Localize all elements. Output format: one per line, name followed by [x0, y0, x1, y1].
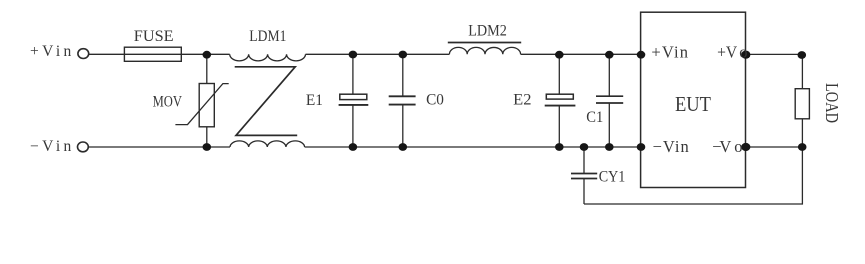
svg-text:FUSE: FUSE [134, 28, 174, 45]
svg-text:+V: +V [717, 42, 737, 61]
inductor LDM1 top winding [230, 54, 306, 61]
svg-text:o: o [739, 42, 747, 61]
wire bottom rail: LDM1 to EUT [305, 146, 641, 148]
capacitor E1 top plate [340, 94, 367, 99]
capacitor C0 wires [402, 54, 404, 96]
junction EUT -Vo pin [741, 143, 750, 151]
junction E2 bottom [555, 143, 564, 151]
node +Vin terminal [78, 49, 89, 59]
capacitor E1 wires [352, 54, 354, 94]
svg-text:MOV: MOV [153, 94, 183, 111]
svg-text:−V: −V [712, 137, 731, 156]
svg-text:LDM2: LDM2 [468, 22, 507, 39]
resistor LOAD body [795, 89, 809, 119]
junction C0 bottom [399, 143, 408, 151]
svg-text:E1: E1 [306, 92, 323, 109]
svg-text:−Vin: −Vin [653, 137, 689, 156]
svg-text:−Vin: −Vin [30, 138, 72, 155]
svg-text:CY1: CY1 [599, 168, 626, 185]
EUT box [641, 12, 746, 187]
svg-text:+Vin: +Vin [30, 43, 72, 60]
svg-text:EUT: EUT [675, 92, 711, 116]
svg-text:C0: C0 [426, 92, 444, 109]
svg-text:+Vin: +Vin [651, 42, 688, 61]
varistor MOV body [199, 84, 214, 127]
junction LOAD top [798, 51, 807, 59]
junction EUT +Vin pin [637, 51, 646, 59]
svg-text:C1: C1 [586, 109, 603, 126]
capacitor C0 plates [389, 95, 416, 97]
capacitor CY1 wires [583, 147, 585, 174]
capacitor C1 wires [608, 54, 610, 96]
junction C1 top [605, 51, 614, 59]
wire +Vo to LOAD [746, 53, 803, 55]
varistor MOV diagonal [175, 84, 228, 125]
inductor LDM2 winding [449, 47, 520, 54]
junction CY1 [580, 143, 589, 151]
LDM1 core Z symbol [235, 67, 298, 136]
junction LOAD bottom [798, 143, 807, 151]
junction E1 top [349, 51, 358, 59]
wire CY1 return bottom [584, 147, 802, 204]
svg-text:o: o [734, 137, 742, 156]
capacitor E2 bottom plate [545, 105, 576, 107]
junction EUT -Vin pin [637, 143, 646, 151]
junction C1 bottom [605, 143, 614, 151]
junction MOV top [203, 51, 212, 59]
wire -Vo to LOAD [746, 146, 803, 148]
svg-text:LOAD: LOAD [822, 83, 842, 123]
fuse FUSE body [124, 47, 181, 61]
resistor LOAD wires [801, 54, 803, 88]
junction MOV bottom [203, 143, 212, 151]
junction EUT +Vo pin [741, 51, 750, 59]
svg-text:LDM1: LDM1 [249, 28, 286, 45]
capacitor E1 bottom plate [339, 104, 369, 106]
wire top rail: terminal to MOV junction [89, 53, 207, 55]
capacitor C1 plates [596, 95, 623, 97]
capacitor E2 wires [558, 54, 560, 94]
junction E2 top [555, 51, 564, 59]
varistor MOV vertical wires [206, 54, 208, 83]
junction E1 bottom [349, 143, 358, 151]
capacitor E2 top plate [546, 94, 573, 99]
wire top rail: LDM2 to EUT [521, 53, 641, 55]
junction C0 top [399, 51, 408, 59]
svg-text:E2: E2 [513, 92, 531, 109]
inductor LDM1 bottom winding [230, 141, 305, 147]
capacitor CY1 plates [571, 173, 597, 175]
node -Vin terminal [78, 142, 89, 152]
LDM2 core bar [448, 42, 521, 44]
wire top rail: MOV junction to LDM1 [207, 53, 230, 55]
wire bottom rail: terminal to LDM1 [88, 146, 230, 148]
wire top rail: LDM1 to LDM2 [306, 53, 450, 55]
